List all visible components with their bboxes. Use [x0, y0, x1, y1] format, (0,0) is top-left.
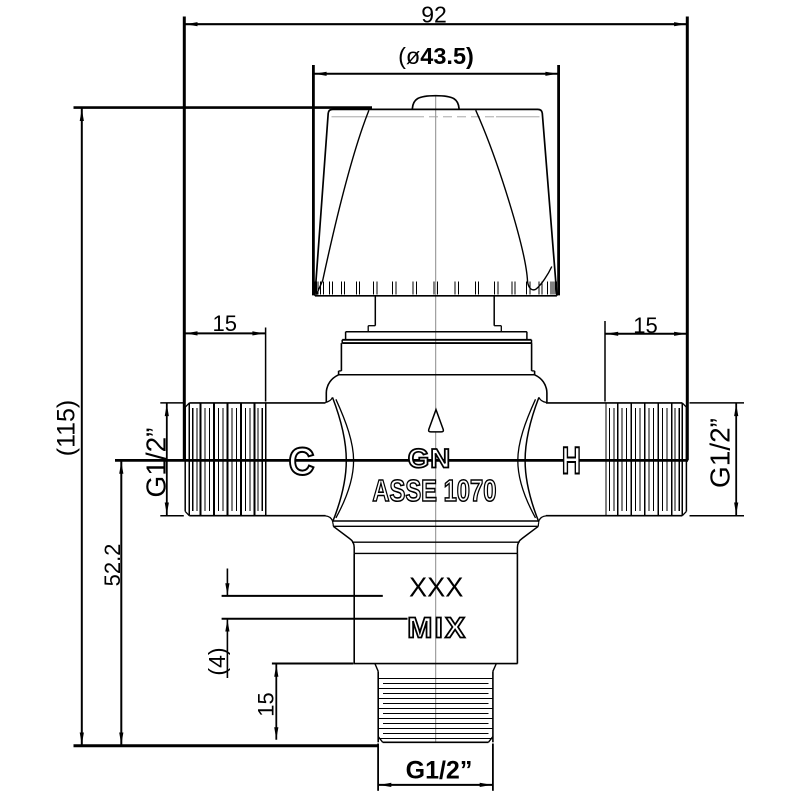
- body left waist inner: [336, 399, 354, 518]
- outlet thread lead chamfer: [375, 664, 378, 672]
- dimension 15 right line: [605, 333, 687, 335]
- svg-text:XXX: XXX: [409, 572, 464, 603]
- body top shoulder left: [326, 375, 338, 403]
- dimension 52.2 line: [120, 461, 122, 745]
- vertical centerline: [435, 96, 437, 743]
- knob parting line: [332, 116, 416, 118]
- knob bottom rim: [315, 295, 557, 297]
- svg-text:15: 15: [633, 313, 657, 338]
- body left waist outer: [325, 397, 332, 402]
- svg-text:C: C: [289, 440, 315, 483]
- outlet thread: [377, 671, 379, 742]
- outlet bottom: [378, 737, 383, 743]
- svg-text:MIX: MIX: [407, 613, 467, 645]
- svg-text:G1/2”: G1/2”: [406, 757, 473, 785]
- right port outline: [546, 402, 682, 404]
- svg-text:52.2: 52.2: [100, 544, 125, 587]
- svg-text:H: H: [562, 440, 581, 482]
- dimension 115 top extension line: [74, 106, 373, 109]
- body lower shoulder: [333, 526, 354, 553]
- body right waist inner: [518, 399, 536, 518]
- dimension 115 line: [81, 108, 83, 745]
- horizontal centerline: [115, 459, 688, 462]
- svg-text:GN: GN: [408, 443, 452, 473]
- svg-text:ASSE 1070: ASSE 1070: [372, 474, 496, 508]
- bonnet ring band: [342, 339, 531, 341]
- mark direction triangle: [429, 410, 444, 432]
- dimension ø43.5 extension lines: [312, 65, 315, 295]
- svg-text:92: 92: [421, 1, 447, 27]
- dimension G1/2 right line: [735, 403, 737, 516]
- dimension 4 reference lines: [222, 595, 383, 597]
- svg-text:15: 15: [253, 692, 278, 716]
- svg-text:G1/2”: G1/2”: [141, 427, 172, 497]
- knob left flute contour: [317, 110, 369, 295]
- dimension 15 left extension line: [265, 328, 267, 402]
- bonnet hex section: [340, 343, 342, 371]
- dimension G1/2 bottom line: [378, 784, 493, 786]
- dimension G1/2 bottom extension lines: [377, 744, 379, 791]
- svg-text:(4): (4): [204, 647, 230, 675]
- left port outline: [189, 402, 325, 404]
- dimension G1/2 left extension lines: [160, 402, 183, 404]
- svg-text:15: 15: [212, 311, 236, 336]
- dimension G1/2 right extension lines: [690, 402, 745, 404]
- body right waist outer: [539, 397, 546, 402]
- svg-text:G1/2”: G1/2”: [705, 418, 736, 488]
- knob knurling: [312, 281, 314, 294]
- svg-text:(115): (115): [53, 400, 81, 457]
- dimension 15 right extension line: [604, 321, 606, 402]
- dimension ø43.5 line: [313, 73, 558, 75]
- knob silhouette: [315, 109, 557, 295]
- stem: [374, 296, 376, 326]
- dimension 15 bottom extension line: [272, 663, 353, 665]
- right port thread: [681, 403, 683, 516]
- body lower band: [333, 520, 538, 522]
- mixed outlet box: [353, 553, 355, 663]
- bonnet cap slab: [346, 331, 527, 333]
- knob right flute contour: [476, 110, 552, 290]
- left port thread: [188, 403, 190, 516]
- svg-text:(ø43.5): (ø43.5): [398, 43, 474, 69]
- knob dome cap: [412, 96, 459, 109]
- dimension 92 extension lines: [183, 17, 186, 461]
- dimension 115 baseline: [74, 744, 378, 747]
- body top shoulder right: [535, 375, 547, 403]
- dimension 4 arrows: [226, 569, 228, 596]
- dimension 15 left line: [184, 332, 265, 334]
- dimension G1/2 left line: [166, 403, 168, 516]
- dimension 15 bottom line: [275, 664, 277, 740]
- dimension 92 line: [184, 23, 687, 25]
